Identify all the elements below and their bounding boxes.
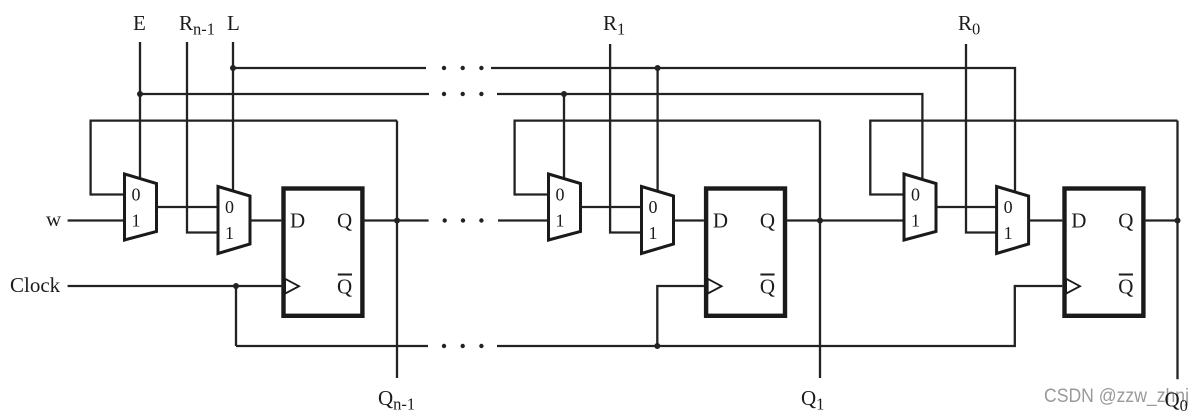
wire mux U1 output to mux U2 input 0	[157, 206, 219, 208]
wire clock distribution right segment rising to FF3	[497, 286, 1062, 346]
mux U1 stage1 E-mux	[125, 174, 157, 240]
svg-text:1: 1	[649, 223, 658, 243]
wire Clock input	[68, 285, 283, 287]
wire clock distribution left segment	[236, 345, 428, 347]
svg-text:Q: Q	[337, 275, 352, 299]
svg-text:D: D	[713, 209, 728, 233]
svg-text:D: D	[1071, 209, 1086, 233]
svg-text:1: 1	[225, 223, 234, 243]
wire L input stem	[232, 42, 234, 192]
svg-text:1: 1	[556, 211, 565, 231]
wire E input stem	[139, 42, 141, 180]
flip-flop FF2	[706, 189, 785, 316]
node clock tap junction	[233, 283, 239, 289]
FF3 clock triangle	[1066, 279, 1080, 294]
wire stage1 feedback from Qn-1 to mux1 input 0	[91, 121, 397, 195]
ellipsis on L line	[442, 66, 446, 70]
svg-text:D: D	[290, 209, 305, 233]
wire Q1 vertical	[819, 121, 821, 378]
node E tap for mux3	[561, 91, 567, 97]
wire mux U4 output to FF2 D	[674, 219, 704, 221]
ellipsis on clock line	[442, 344, 446, 348]
node L tap for mux4	[655, 65, 661, 71]
wire Q chain into mux U3 input 1	[498, 219, 549, 221]
wire E distribution line right segment into mux5 select	[497, 94, 922, 180]
svg-text:w: w	[46, 207, 62, 231]
svg-text:1: 1	[911, 211, 920, 231]
ellipsis on Q chain	[443, 218, 447, 222]
svg-text:E: E	[133, 11, 146, 35]
svg-text:0: 0	[649, 197, 658, 217]
wire E distribution line left segment	[140, 93, 429, 95]
svg-text:Q: Q	[337, 209, 352, 233]
node Qn-1 junction	[394, 218, 400, 224]
svg-text:Q: Q	[760, 209, 775, 233]
svg-text:Clock: Clock	[10, 273, 61, 297]
svg-text:Q: Q	[1118, 209, 1133, 233]
node Q1 junction	[817, 218, 823, 224]
wire mux U6 output to FF3 D	[1029, 219, 1063, 221]
svg-text:0: 0	[132, 185, 141, 205]
wire stage3 feedback from Q0 to mux5 input 0	[870, 121, 1177, 195]
wire L distribution line left segment	[233, 67, 426, 69]
wire clock drop to distribution	[235, 286, 237, 346]
svg-text:0: 0	[1004, 197, 1013, 217]
flip-flop FF1	[284, 189, 363, 316]
svg-text:1: 1	[1004, 223, 1013, 243]
svg-text:L: L	[227, 11, 240, 35]
svg-text:0: 0	[556, 185, 565, 205]
wire mux3 select stem	[563, 94, 565, 180]
node L tap junction	[230, 65, 236, 71]
node E tap junction	[137, 91, 143, 97]
mux U5 stage3 E-mux	[904, 174, 936, 240]
wire clock riser to FF2	[657, 286, 704, 346]
label R1 stem bend into mux U4 input 1	[610, 44, 642, 233]
wire FF3 Q output to right edge	[1144, 219, 1179, 221]
mux U4 stage2 L-mux	[642, 187, 674, 254]
wire Rn-1 input stem	[187, 42, 219, 233]
FF1 clock triangle	[285, 279, 299, 294]
wire mux U3 output to mux U4 input 0	[581, 206, 642, 208]
wire mux U2 output to FF1 D	[250, 219, 281, 221]
svg-text:1: 1	[132, 211, 141, 231]
svg-text:0: 0	[911, 185, 920, 205]
mux U3 stage2 E-mux	[549, 174, 581, 240]
svg-text:0: 0	[225, 197, 234, 217]
wire L distribution line right segment into mux6 select	[491, 68, 1015, 193]
svg-text:Q: Q	[1118, 275, 1133, 299]
node clock tap for FF2	[654, 343, 660, 349]
wire R0 stem bend into mux U6 input 1	[966, 44, 997, 233]
wire Qn-1 vertical (feedback top to output bottom)	[396, 121, 398, 378]
mux U2 stage1 L-mux	[218, 187, 250, 254]
node Q0 junction	[1175, 218, 1181, 224]
wire w input	[68, 219, 125, 221]
mux U6 stage3 L-mux	[997, 187, 1029, 254]
wire stage2 feedback from Q1 to mux3 input 0	[515, 121, 820, 195]
wire Q0 vertical	[1176, 121, 1178, 380]
wire FF1 Q output segment	[363, 219, 429, 221]
FF2 clock triangle	[708, 279, 722, 294]
wire FF2 Q output to mux U5 input 1	[785, 219, 904, 221]
flip-flop FF3	[1065, 189, 1144, 316]
wire mux4 select stem	[656, 68, 658, 192]
svg-text:Q: Q	[760, 275, 775, 299]
ellipsis on E line	[442, 92, 446, 96]
wire mux U5 output to mux U6 input 0	[936, 206, 997, 208]
